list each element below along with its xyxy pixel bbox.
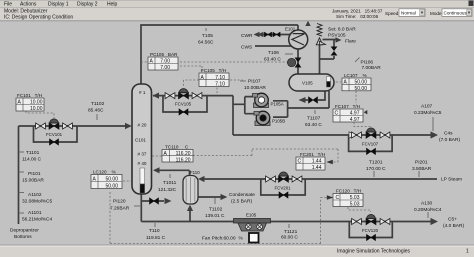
wire: column drain stub — [141, 200, 164, 202]
svg-text:January, 2021 15:48:37: January, 2021 15:48:37 — [332, 8, 383, 13]
controller FC201 — [296, 152, 333, 171]
svg-text:A107: A107 — [421, 104, 433, 110]
svg-text:CWS: CWS — [241, 45, 252, 51]
pump P105B — [254, 111, 285, 125]
wire: CWR line — [258, 34, 290, 36]
svg-text:A1102: A1102 — [28, 192, 42, 198]
svg-text:T1101: T1101 — [26, 150, 40, 156]
tick T1201 — [373, 171, 375, 177]
svg-text:7.00: 7.00 — [160, 59, 170, 65]
svg-text:32.08Mol%C5: 32.08Mol%C5 — [22, 199, 52, 205]
signal FC105 to FCV105 — [184, 80, 200, 86]
arrow condensate out — [221, 194, 228, 200]
label T106 — [264, 50, 281, 63]
valve group FCV105 — [165, 88, 202, 115]
svg-text:# 40: # 40 — [138, 161, 147, 166]
signal LC120 to FC120 cascade — [110, 192, 327, 244]
svg-text:FCV120: FCV120 — [362, 228, 379, 233]
signal TC110 measurement — [152, 155, 162, 157]
valve group FCV201 — [266, 172, 302, 198]
svg-text:Display 2: Display 2 — [77, 1, 98, 7]
label PI101 — [22, 171, 44, 184]
label T1102 feed — [88, 101, 105, 114]
controller LC107 — [342, 73, 371, 92]
svg-text:Sim Time: 03:00:06: Sim Time: 03:00:06 — [336, 14, 379, 19]
svg-text:0.23Mol%C5: 0.23Mol%C5 — [414, 110, 442, 116]
svg-text:7.10: 7.10 — [215, 82, 225, 88]
controller LC120 — [91, 170, 122, 190]
svg-text:60.00 C: 60.00 C — [281, 234, 298, 240]
tick T106 — [285, 53, 293, 55]
label T1102 reboiler — [205, 207, 225, 220]
svg-text:T1011: T1011 — [163, 180, 177, 186]
svg-text:CWR: CWR — [241, 33, 253, 39]
wire: FCV120 bypass — [349, 222, 392, 238]
wire: overhead vapor line — [141, 25, 298, 85]
wire: reboiler liquid feed — [189, 210, 191, 222]
tick PI201 — [418, 171, 420, 177]
svg-text:FC201 T/H: FC201 T/H — [300, 152, 325, 157]
svg-text:170.00 C: 170.00 C — [366, 166, 386, 172]
arrow CWR out — [254, 32, 264, 37]
svg-text:50.00: 50.00 — [105, 177, 118, 183]
svg-text:5.03: 5.03 — [350, 202, 360, 208]
svg-text:50.00: 50.00 — [354, 86, 367, 92]
svg-text:LC107 %: LC107 % — [344, 73, 367, 78]
svg-text:A1101: A1101 — [28, 210, 42, 216]
wire: FCV105 bypass — [163, 96, 207, 112]
tick A120 — [427, 212, 429, 218]
svg-text:Depropanizer: Depropanizer — [10, 228, 39, 234]
svg-text:PI201: PI201 — [415, 160, 428, 166]
tick T1102 reb — [214, 198, 216, 204]
svg-text:FCV201: FCV201 — [275, 186, 292, 191]
info bar — [0, 8, 474, 21]
air cooler E105 — [234, 213, 271, 232]
svg-text:T1107: T1107 — [307, 116, 321, 122]
arrow drain stub — [165, 198, 172, 204]
wire: column bottoms line — [141, 194, 431, 222]
wire: drum recycle stub — [305, 91, 325, 100]
svg-text:Continuous: Continuous — [444, 11, 468, 16]
svg-text:T106: T106 — [268, 50, 279, 56]
svg-text:C: C — [298, 159, 302, 165]
svg-text:E105: E105 — [246, 213, 257, 218]
svg-text:7.10: 7.10 — [215, 75, 225, 81]
wire: FCV107 bypass — [349, 135, 393, 151]
controller FC101 — [16, 93, 44, 112]
arrow C5+ product — [431, 218, 439, 225]
svg-text:T1121: T1121 — [284, 229, 298, 235]
arrow reflux into column — [153, 93, 160, 99]
signal PC105 to PCV — [180, 61, 290, 63]
svg-text:Set: 8.0 BAR: Set: 8.0 BAR — [328, 27, 356, 33]
svg-text:60.00: 60.00 — [224, 236, 236, 242]
arrow distillate flow (hollow) — [349, 132, 356, 138]
signal FC101 to FCV101 — [26, 111, 54, 120]
svg-text:119.81 C: 119.81 C — [146, 235, 166, 241]
signal TC110 to FC201 cascade — [193, 149, 338, 162]
svg-text:FC120 T/H: FC120 T/H — [336, 189, 361, 194]
controller PC105 — [148, 52, 178, 71]
arrow vapor return into column — [153, 167, 160, 173]
tick T1102 feed — [96, 114, 98, 120]
wire: CWS line — [255, 45, 292, 47]
svg-text:FC107 T/H: FC107 T/H — [335, 104, 360, 109]
svg-text:F110: F110 — [190, 170, 200, 175]
svg-text:Mode:: Mode: — [430, 11, 443, 16]
svg-text:A130: A130 — [421, 201, 433, 207]
label PI106 — [361, 60, 382, 72]
svg-text:116.20: 116.20 — [176, 157, 191, 163]
label Depropanizer Bottoms — [10, 228, 39, 241]
svg-text:File: File — [4, 1, 12, 7]
svg-text:E101: E101 — [285, 27, 296, 32]
label PI107 — [244, 79, 266, 92]
tick T110 — [154, 223, 156, 227]
controller FC107 — [333, 104, 367, 123]
svg-text:P105A: P105A — [271, 102, 284, 107]
svg-text:(4.0 BAR): (4.0 BAR) — [443, 223, 464, 229]
controller FC120 — [327, 189, 363, 208]
column C101 — [132, 84, 152, 194]
tick T1121 — [288, 224, 290, 228]
drum level gauge — [327, 77, 331, 88]
svg-text:IC: Design Operating Condition: IC: Design Operating Condition — [4, 15, 73, 21]
svg-text:FC105 T/H: FC105 T/H — [201, 68, 226, 73]
relief valve PSV105 — [316, 24, 325, 45]
wire: pump suction manifold — [273, 91, 329, 117]
svg-text:C101: C101 — [135, 138, 146, 143]
svg-text:PSV105: PSV105 — [328, 33, 346, 39]
signal FC107 to FCV107 — [354, 122, 371, 128]
svg-text:Flare: Flare — [345, 39, 356, 45]
arrow vent up — [305, 21, 310, 26]
label PI120 — [110, 199, 130, 212]
arrow feed into column — [125, 123, 132, 129]
wire: distillate product line — [233, 134, 431, 136]
svg-text:10.00BAR: 10.00BAR — [244, 85, 266, 91]
condenser E101 — [285, 27, 308, 50]
valve group FCV107 — [352, 128, 390, 155]
svg-text:15.00BAR: 15.00BAR — [22, 178, 44, 184]
signal PC105 measurement — [141, 61, 148, 63]
label T1011 — [158, 180, 177, 193]
svg-text:63.40 C: 63.40 C — [264, 57, 281, 63]
pump P105A — [253, 93, 284, 107]
signal FC120 to FCV120 — [348, 207, 371, 212]
arrow C4s product — [431, 131, 439, 138]
svg-text:T1102: T1102 — [91, 101, 105, 107]
svg-text:Help: Help — [107, 1, 118, 7]
signal PC105 to FC105 cascade — [180, 66, 202, 72]
svg-text:114.00 C: 114.00 C — [22, 157, 42, 163]
tick A1102 — [19, 192, 25, 194]
svg-text:T1102: T1102 — [209, 207, 223, 213]
arrow flare — [336, 37, 342, 43]
wire: FCV201 bypass — [261, 179, 305, 195]
arrow recycle stub — [299, 97, 306, 103]
label T1101 — [22, 150, 42, 163]
svg-text:FC101 T/H: FC101 T/H — [17, 93, 42, 98]
valve group FCV101 — [36, 119, 73, 145]
svg-text:10.00: 10.00 — [30, 100, 43, 106]
svg-text:FCV101: FCV101 — [46, 132, 63, 137]
label A1101 — [22, 210, 52, 223]
svg-text:3.50BAR: 3.50BAR — [412, 166, 432, 172]
svg-text:Fan Pitch:: Fan Pitch: — [202, 236, 224, 242]
column level gauge — [140, 168, 145, 193]
svg-text:1.44: 1.44 — [312, 159, 322, 165]
svg-text:Actions: Actions — [20, 1, 37, 7]
tick PI106 — [355, 58, 360, 63]
label T1201 — [366, 160, 386, 173]
svg-text:0.20Mol%C4: 0.20Mol%C4 — [414, 207, 442, 213]
tick PI120 — [134, 205, 140, 207]
svg-text:1: 1 — [466, 248, 469, 254]
svg-text:85.46C: 85.46C — [88, 108, 104, 114]
label T110 — [146, 228, 166, 241]
svg-text:PI120: PI120 — [113, 199, 126, 205]
signal LC107 to FC107 cascade — [355, 91, 357, 103]
wire: feed source vertical — [18, 126, 20, 224]
label C5+ product — [443, 217, 464, 230]
wire: LP steam line — [204, 178, 438, 180]
signal FC105 measurement — [216, 88, 218, 94]
tick T105 — [205, 28, 207, 31]
status bar — [0, 245, 474, 257]
svg-text:Bottoms: Bottoms — [14, 234, 32, 240]
wire: drum PSV riser — [320, 40, 337, 75]
svg-text:121.32C: 121.32C — [158, 187, 177, 193]
svg-text:50.00: 50.00 — [354, 80, 367, 86]
reflux drum V105 — [289, 74, 334, 91]
wire: reflux line — [153, 95, 233, 97]
svg-text:# 20: # 20 — [138, 123, 147, 128]
label T107 — [305, 116, 322, 129]
svg-text:PI106: PI106 — [361, 60, 374, 66]
svg-text:116.20: 116.20 — [176, 151, 191, 157]
svg-text:5.03: 5.03 — [350, 195, 360, 201]
svg-text:7.00: 7.00 — [160, 65, 170, 71]
valve group FCV120 — [352, 214, 390, 240]
svg-text:C5+: C5+ — [448, 217, 457, 223]
wire: condensate line — [198, 196, 221, 198]
arrow steam into reboiler — [198, 176, 205, 182]
signal LC120 measurement — [123, 180, 131, 182]
svg-text:T105: T105 — [202, 33, 213, 39]
wire: reboiler vapor return — [157, 170, 190, 175]
label A1102 — [22, 192, 52, 205]
svg-text:LC120 %: LC120 % — [93, 170, 116, 175]
label C4s product — [439, 131, 460, 144]
svg-text:PC105 BAR: PC105 BAR — [150, 52, 178, 57]
tick A107 — [432, 117, 434, 131]
wire: condenser outlet to drum — [298, 24, 308, 74]
signal LC107 measurement — [332, 81, 341, 83]
arrow reboiler feed up — [187, 205, 193, 211]
svg-text:10.00: 10.00 — [30, 106, 43, 112]
svg-text:63.40 C: 63.40 C — [305, 122, 322, 128]
tick PI107 — [240, 80, 246, 82]
label T1121 — [281, 229, 298, 241]
svg-text:T1201: T1201 — [369, 160, 383, 166]
svg-text:(7.0 BAR): (7.0 BAR) — [439, 137, 460, 143]
svg-text:LP Steam: LP Steam — [441, 177, 462, 183]
svg-text:64.56C: 64.56C — [198, 40, 214, 46]
svg-text:4.97: 4.97 — [350, 117, 360, 123]
signal FC105 right tick — [230, 79, 243, 81]
svg-text:50.00: 50.00 — [105, 184, 118, 190]
svg-text:FCV105: FCV105 — [175, 102, 192, 107]
label A107 — [414, 104, 442, 117]
valve drain (black) — [150, 198, 159, 204]
svg-text:56.21Mol%C4: 56.21Mol%C4 — [22, 217, 52, 223]
svg-text:7.26BAR: 7.26BAR — [110, 206, 130, 212]
svg-text:Speed:: Speed: — [385, 11, 400, 16]
svg-text:T110: T110 — [149, 228, 160, 234]
menu bar — [0, 0, 474, 8]
tick PI101 — [19, 171, 25, 173]
valves CWR pair (black) — [264, 32, 271, 37]
svg-text:TC110 C: TC110 C — [165, 145, 189, 150]
svg-text:1.44: 1.44 — [312, 165, 322, 171]
svg-text:PI101: PI101 — [28, 171, 41, 177]
label Fan Pitch — [202, 233, 259, 243]
controller FC105 — [199, 68, 229, 88]
svg-text:V105: V105 — [302, 81, 313, 86]
valve PCV on condenser outlet — [287, 58, 301, 68]
label PI201 — [412, 160, 432, 173]
svg-text:C: C — [335, 111, 339, 117]
tick T1011 — [169, 174, 171, 178]
tick T1101 — [19, 151, 25, 153]
controller TC110 — [162, 145, 193, 164]
svg-text:# 37: # 37 — [138, 152, 147, 157]
svg-text:# 1: # 1 — [139, 90, 146, 95]
wire: distillate riser — [232, 96, 234, 135]
svg-text:Imagine Simulation Technologie: Imagine Simulation Technologies — [337, 248, 411, 254]
label A120 — [414, 201, 442, 214]
wire: pump discharge manifold — [233, 97, 256, 114]
svg-text:7.00BAR: 7.00BAR — [362, 65, 382, 71]
svg-text:Condensate: Condensate — [229, 192, 255, 198]
svg-text:(2.5 BAR): (2.5 BAR) — [231, 199, 252, 205]
svg-text:FCV107: FCV107 — [362, 142, 379, 147]
label T105 — [198, 33, 214, 46]
wire: feed line to column — [19, 125, 131, 127]
svg-text:P105B: P105B — [272, 119, 285, 124]
label Condensate — [229, 192, 255, 205]
valve flare bypass (black) — [331, 47, 338, 56]
svg-text:C4s: C4s — [444, 131, 453, 137]
svg-text:%: % — [239, 236, 244, 242]
tick T107 — [314, 110, 316, 114]
svg-text:Display 1: Display 1 — [48, 1, 69, 7]
tick A1101 — [19, 212, 25, 214]
svg-text:4.97: 4.97 — [350, 111, 360, 117]
svg-text:PI107: PI107 — [248, 79, 261, 85]
svg-text:139.01 C: 139.01 C — [205, 213, 225, 219]
svg-text:Normal: Normal — [401, 11, 416, 16]
wire: FCV101 bypass — [34, 126, 78, 142]
valve recycle (black) — [309, 97, 318, 103]
reboiler F110 — [183, 170, 200, 204]
svg-text:C: C — [336, 195, 340, 201]
